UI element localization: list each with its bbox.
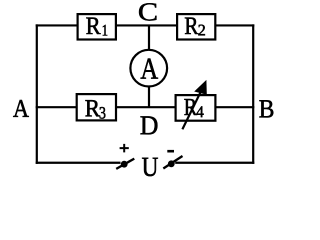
ammeter U1 (meter A)	[130, 50, 167, 87]
wire: right vertical branch	[252, 24, 254, 164]
resistor R2	[177, 14, 215, 39]
resistor R1	[78, 14, 116, 39]
plus sign label	[120, 144, 129, 153]
wire: bottom right from - terminal	[175, 162, 254, 164]
node A	[13, 100, 29, 117]
battery positive terminal	[116, 159, 134, 169]
minus sign label	[167, 150, 174, 153]
node B	[259, 100, 273, 117]
battery negative terminal	[163, 156, 182, 169]
wire: top horizontal through node C	[36, 24, 255, 26]
wire: bottom left to + terminal	[36, 162, 121, 164]
node C	[139, 3, 156, 20]
wire: left vertical branch	[36, 24, 38, 164]
resistor R3	[77, 94, 116, 120]
wire: middle horizontal A-D-B	[36, 106, 255, 108]
resistor R4 (variable)	[176, 95, 216, 121]
arrow of variable resistor R4	[182, 80, 206, 129]
source voltage label U	[142, 158, 158, 176]
node D	[141, 116, 158, 134]
wire: center vertical C-ammeter-D	[148, 25, 150, 107]
